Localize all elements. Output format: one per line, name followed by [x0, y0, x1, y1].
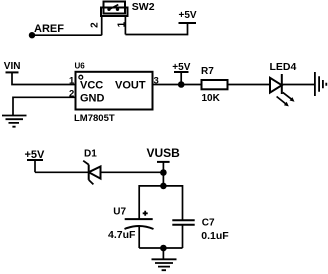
svg-text:C7: C7 — [202, 217, 215, 228]
svg-text:GND: GND — [80, 92, 105, 104]
svg-text:+5V: +5V — [179, 10, 197, 21]
svg-text:2: 2 — [69, 89, 74, 100]
svg-text:U7: U7 — [113, 207, 126, 218]
svg-text:VUSB: VUSB — [147, 146, 181, 160]
svg-text:R7: R7 — [201, 66, 214, 77]
svg-text:VOUT: VOUT — [115, 79, 146, 91]
svg-text:10K: 10K — [202, 93, 221, 104]
svg-text:VCC: VCC — [80, 79, 103, 91]
svg-text:1: 1 — [117, 21, 128, 27]
svg-text:1: 1 — [69, 76, 75, 87]
svg-text:+5V: +5V — [172, 62, 190, 73]
svg-text:4.7uF: 4.7uF — [108, 229, 136, 241]
svg-text:VIN: VIN — [4, 61, 21, 72]
svg-text:2: 2 — [89, 22, 100, 28]
svg-text:U6: U6 — [75, 61, 86, 70]
svg-text:LED4: LED4 — [270, 61, 297, 73]
svg-text:SW2: SW2 — [132, 1, 155, 13]
svg-text:0.1uF: 0.1uF — [201, 230, 229, 242]
svg-text:D1: D1 — [84, 149, 97, 160]
svg-text:LM7805T: LM7805T — [74, 113, 115, 124]
svg-text:AREF: AREF — [34, 23, 64, 35]
